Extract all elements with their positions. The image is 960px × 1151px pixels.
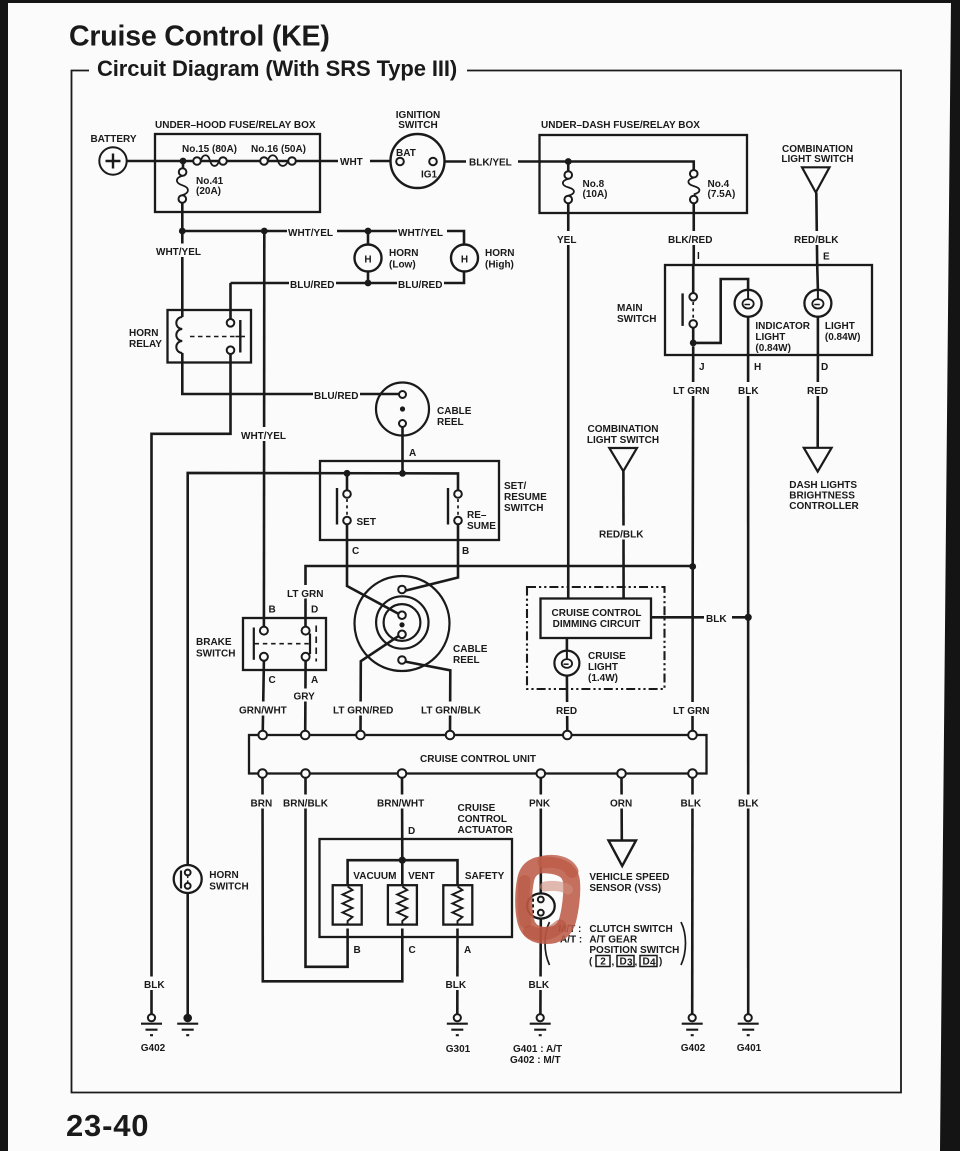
net label RED/BLK (middle) (598, 526, 646, 540)
wire cable reel A to set/resume (401, 427, 404, 474)
svg-text:BLK: BLK (706, 614, 727, 625)
pin IG1 (429, 158, 437, 166)
wire RED/BLK to dimming circuit (622, 471, 625, 598)
net label YEL (554, 231, 583, 245)
svg-text:ACTUATOR: ACTUATOR (458, 825, 514, 836)
svg-text:CABLE: CABLE (453, 644, 488, 655)
wire E feed to light bulb (816, 265, 819, 290)
wire brake A to CCU (GRY) (304, 661, 307, 735)
svg-text:BRN/BLK: BRN/BLK (283, 799, 329, 810)
horn (Low) (355, 245, 382, 272)
net label BRN/BLK (282, 795, 329, 809)
wire B from RESUME to cable reel (406, 524, 458, 590)
cruise control dimming circuit box (541, 599, 652, 639)
svg-text:YEL: YEL (557, 235, 576, 246)
horn relay contact terminals (227, 319, 235, 327)
ground G402 (left) (148, 1014, 155, 1021)
horn switch (174, 865, 202, 893)
svg-text:CONTROLLER: CONTROLLER (789, 501, 859, 512)
fuse No.41 (20A) (179, 168, 187, 176)
node: junction battery/fuse15/fuse41 (180, 158, 187, 165)
wire main switch to indicator light (693, 279, 748, 343)
svg-text:SWITCH: SWITCH (617, 314, 656, 325)
svg-text:G401 : A/T: G401 : A/T (513, 1044, 562, 1055)
svg-text:No.15 (80A): No.15 (80A) (182, 144, 237, 155)
clutch switch annotation parens (545, 922, 550, 965)
svg-text:WHT/YEL: WHT/YEL (288, 228, 333, 239)
svg-text:A: A (409, 448, 416, 459)
light bulb (804, 290, 831, 317)
fuse No.4 (7.5A) (690, 170, 698, 178)
node: junction A / common (399, 470, 406, 477)
wire C from SET to cable reel (347, 524, 399, 614)
svg-text:IG1: IG1 (421, 170, 438, 181)
wire relay coil to BLU/RED cable reel line (182, 363, 398, 395)
svg-text:RED: RED (807, 386, 828, 397)
svg-text:D: D (620, 957, 627, 968)
svg-text:UNDER–DASH FUSE/RELAY BOX: UNDER–DASH FUSE/RELAY BOX (541, 120, 700, 131)
node: junction BLK at H column (745, 614, 752, 621)
net label LT GRN (brake D line) (286, 585, 326, 599)
net label LT GRN (J column) (672, 382, 714, 396)
svg-text:SET/: SET/ (504, 481, 526, 492)
svg-text:CRUISE: CRUISE (588, 651, 626, 662)
wire safety to ground G301 (456, 929, 459, 1015)
under-dash fuse/relay box (540, 135, 748, 213)
net label BLK (left ground) (141, 977, 167, 991)
svg-text:4: 4 (650, 958, 656, 969)
svg-text:BLK: BLK (738, 799, 759, 810)
vehicle speed sensor triangle (609, 841, 637, 867)
svg-text:(0.84W): (0.84W) (825, 332, 861, 343)
brake switch box (243, 618, 326, 670)
cruise control actuator box (320, 839, 513, 937)
main switch box (665, 265, 872, 355)
SET switch (346, 473, 349, 490)
scan border right bar (940, 0, 960, 1151)
svg-text:D: D (821, 362, 828, 373)
svg-text:(10A): (10A) (583, 189, 608, 200)
page frame (72, 71, 902, 1093)
svg-text:J: J (699, 362, 705, 373)
svg-text:RELAY: RELAY (129, 339, 162, 350)
scan border left bar (0, 0, 8, 1151)
svg-text:BLK: BLK (738, 386, 759, 397)
brake switch contacts (260, 627, 268, 635)
svg-text:SWITCH: SWITCH (398, 120, 437, 131)
svg-text:LT GRN: LT GRN (287, 589, 323, 600)
wire fuse41 drop (181, 164, 184, 228)
svg-text:Circuit Diagram (With SRS Type: Circuit Diagram (With SRS Type III) (97, 56, 457, 81)
svg-text:MAIN: MAIN (617, 303, 643, 314)
svg-text:CABLE: CABLE (437, 406, 472, 417)
wire BLK/RED column (fuse4 to main switch I) (692, 203, 695, 265)
cruise light bulb (554, 651, 579, 676)
svg-text:VEHICLE SPEED: VEHICLE SPEED (589, 872, 669, 883)
ground G401 (right) (745, 1014, 752, 1021)
svg-text:3: 3 (627, 958, 633, 969)
svg-text:LT GRN/BLK: LT GRN/BLK (421, 706, 482, 717)
net label BLU/RED (first) (289, 276, 336, 290)
safety solenoid (443, 885, 472, 924)
vacuum solenoid (333, 885, 362, 924)
svg-text:(High): (High) (485, 260, 514, 271)
svg-text:LIGHT: LIGHT (755, 332, 785, 343)
net label LT GRN/BLK (419, 702, 483, 716)
brake switch dashed link (255, 643, 310, 645)
net label BLK (safety) (444, 977, 470, 991)
svg-text:BATTERY: BATTERY (90, 134, 136, 145)
net label WHT/YEL (second) (397, 224, 447, 238)
pin BAT (396, 158, 404, 166)
net label BLU/RED (second) (397, 276, 444, 290)
wire dimming to cruise light (566, 638, 569, 651)
net label WHT/YEL (first) (287, 224, 337, 238)
wire BLK dimming to H column (651, 616, 748, 619)
wire BRN/BLK to vacuum solenoid (306, 778, 348, 967)
svg-text:LIGHT SWITCH: LIGHT SWITCH (587, 435, 659, 446)
svg-text:A/T GEAR: A/T GEAR (589, 935, 638, 946)
battery B+ (99, 147, 126, 174)
wire brake C to CCU (GRN/WHT) (263, 661, 264, 735)
svg-text:POSITION SWITCH: POSITION SWITCH (589, 945, 679, 956)
svg-text:(Low): (Low) (389, 260, 416, 271)
svg-text:SWITCH: SWITCH (196, 649, 235, 660)
svg-text:23-40: 23-40 (66, 1108, 149, 1143)
svg-text:LT GRN/RED: LT GRN/RED (333, 706, 393, 717)
node: junction fuse No.8 tap (565, 158, 572, 165)
ground (horn switch, filled) (183, 1014, 192, 1023)
net label BLU/RED (cable reel line) (313, 387, 360, 401)
svg-text:,: , (612, 957, 615, 968)
svg-text:(7.5A): (7.5A) (708, 189, 736, 200)
horn relay coil (181, 310, 184, 363)
net label LT GRN (above CCU right) (671, 702, 713, 716)
node: junction D bus (399, 857, 406, 864)
wire clutch switch to ground (539, 919, 542, 1015)
wire horn low to BLU/RED (367, 272, 370, 284)
wire actuator internal bus (348, 860, 458, 885)
wire BLU/RED horn line (231, 271, 465, 283)
svg-text:WHT/YEL: WHT/YEL (241, 431, 286, 442)
svg-text:CRUISE: CRUISE (458, 803, 496, 814)
cable reel (lower) rings (355, 576, 450, 671)
svg-text:G402: G402 (141, 1043, 166, 1054)
wire battery feed y=161 (127, 160, 391, 163)
svg-text:H: H (754, 362, 761, 373)
svg-text:D: D (408, 826, 415, 837)
net label BLK (H column lower) (736, 795, 762, 809)
svg-text:BLU/RED: BLU/RED (398, 280, 442, 291)
svg-text:BLU/RED: BLU/RED (314, 391, 358, 402)
svg-text:BRN/WHT: BRN/WHT (377, 799, 424, 810)
net label GRN/WHT (238, 702, 288, 716)
svg-text:DIMMING CIRCUIT: DIMMING CIRCUIT (553, 619, 641, 630)
svg-text:CLUTCH SWITCH: CLUTCH SWITCH (589, 924, 672, 935)
net label PNK (527, 795, 557, 809)
main switch contact (692, 265, 695, 293)
net label BRN/WHT (376, 795, 426, 809)
svg-text:SWITCH: SWITCH (504, 503, 543, 514)
RESUME switch (447, 488, 449, 525)
svg-text:I: I (697, 251, 700, 262)
svg-text:RED: RED (556, 706, 577, 717)
svg-text:CRUISE CONTROL UNIT: CRUISE CONTROL UNIT (420, 754, 536, 765)
svg-text:G402 : M/T: G402 : M/T (510, 1055, 561, 1066)
cable reel terminals (398, 586, 406, 594)
svg-text:LIGHT: LIGHT (588, 662, 618, 673)
wire horn switch to ground (186, 893, 189, 1015)
net label WHT/YEL (vertical inline) (155, 244, 205, 258)
svg-text:D: D (643, 957, 650, 968)
svg-text:B: B (354, 945, 361, 956)
net label BRN (249, 795, 277, 809)
svg-text:BRAKE: BRAKE (196, 637, 232, 648)
wire LT GRN brake-D to J column (306, 566, 693, 627)
clutch switch / A-T gear position switch (527, 893, 555, 918)
svg-text:Cruise Control (KE): Cruise Control (KE) (69, 21, 330, 53)
svg-text:DASH LIGHTS: DASH LIGHTS (789, 480, 857, 491)
svg-text:SET: SET (357, 517, 376, 528)
net label BLK (G402 column) (679, 795, 706, 809)
wire IG1 to under-dash box (445, 160, 542, 163)
svg-text:C: C (352, 546, 359, 557)
vent solenoid (388, 885, 417, 924)
wire BRN/WHT (D) to actuator (401, 778, 404, 860)
ground G301 (454, 1014, 461, 1021)
ignition switch U: circle (391, 134, 445, 188)
svg-text:GRY: GRY (294, 692, 316, 703)
svg-text:WHT: WHT (340, 157, 363, 168)
net label LT GRN/RED (331, 702, 394, 716)
node: junction horn low bottom (365, 280, 372, 287)
node: junction LT GRN at J column (689, 563, 696, 570)
svg-text:BLU/RED: BLU/RED (290, 280, 334, 291)
wire BRN to vent solenoid (263, 778, 403, 982)
svg-text:LT GRN: LT GRN (673, 706, 709, 717)
cruise control unit box (249, 735, 707, 774)
svg-text:INDICATOR: INDICATOR (755, 321, 810, 332)
horn relay actuation dashed link (190, 336, 236, 338)
wire cruise light to CCU (RED) (566, 676, 569, 735)
svg-text:REEL: REEL (453, 655, 480, 666)
svg-text:B: B (462, 546, 469, 557)
wire ORN to VSS (620, 778, 623, 841)
horn relay contact bar (239, 320, 241, 353)
wire YEL column (fuse8 to dimming circuit) (567, 203, 570, 598)
node: junction WHT/YEL brake-switch column (261, 228, 268, 235)
svg-text:LIGHT SWITCH: LIGHT SWITCH (781, 154, 853, 165)
svg-text:): ) (659, 957, 662, 968)
svg-text:C: C (409, 945, 416, 956)
svg-text:CONTROL: CONTROL (458, 814, 507, 825)
wire to fuse No.8 (567, 164, 570, 171)
svg-text:PNK: PNK (529, 799, 551, 810)
svg-text:LT GRN: LT GRN (673, 386, 709, 397)
svg-text:BLK/RED: BLK/RED (668, 235, 712, 246)
svg-text:BRIGHTNESS: BRIGHTNESS (789, 491, 855, 502)
svg-text:G401: G401 (737, 1043, 762, 1054)
svg-text:RESUME: RESUME (504, 492, 547, 503)
svg-text:H: H (461, 255, 468, 266)
svg-text:REEL: REEL (437, 417, 464, 428)
fuse No.16 (50A) (260, 157, 268, 165)
svg-text:A: A (311, 675, 318, 686)
svg-text:COMBINATION: COMBINATION (588, 424, 659, 435)
net label GRY (292, 689, 320, 702)
svg-text:GRN/WHT: GRN/WHT (239, 706, 287, 717)
wire WHT/YEL horizontal to horns (182, 231, 464, 245)
wire D column (RED) (816, 317, 819, 448)
svg-text:(1.4W): (1.4W) (588, 673, 618, 684)
wire BLK LT GRN column to ground G402 (691, 778, 694, 1014)
wire J column (LT GRN) (691, 346, 694, 735)
net label ORN (608, 795, 638, 809)
node: junction WHT/YEL at fuse41 bottom (179, 228, 186, 235)
svg-text:BLK: BLK (681, 799, 702, 810)
under-hood fuse/relay box (155, 134, 320, 212)
svg-text:2: 2 (600, 957, 606, 968)
ground G401/G402 (clutch) (537, 1014, 544, 1021)
svg-text:SUME: SUME (467, 521, 496, 532)
wire RED/BLK comb switch to E (815, 193, 819, 266)
svg-text:No.16 (50A): No.16 (50A) (251, 144, 306, 155)
horn relay box (168, 310, 252, 363)
svg-text:VACUUM: VACUUM (353, 871, 396, 882)
wire cable reel to LT GRN/RED (361, 636, 399, 735)
svg-text:HORN: HORN (389, 248, 418, 259)
node: junction horn low top (365, 228, 372, 235)
svg-text:G301: G301 (446, 1044, 471, 1055)
wire WHT/YEL drop to relay coil (181, 231, 184, 310)
svg-text:BLK: BLK (529, 980, 550, 991)
net label BLK (clutch) (527, 977, 553, 991)
svg-text:RED/BLK: RED/BLK (794, 235, 839, 246)
net label BLK (dimming) (704, 610, 732, 624)
svg-text:(20A): (20A) (196, 186, 221, 197)
net label WHT (338, 154, 370, 167)
wire WHT/YEL common (horn switch / set-resume) (188, 473, 458, 865)
svg-text:HORN: HORN (209, 870, 238, 881)
svg-text:BLK: BLK (446, 980, 467, 991)
wire relay contact to ground column (152, 354, 231, 1014)
svg-text:RED/BLK: RED/BLK (599, 530, 644, 541)
wire H column (BLK) (747, 317, 750, 1014)
net label BLK/RED (666, 231, 720, 245)
fuse No.8 (10A) (564, 171, 572, 179)
svg-text:SENSOR (VSS): SENSOR (VSS) (589, 883, 661, 894)
net label BLK/YEL (466, 154, 518, 168)
scan border top bar (0, 0, 960, 3)
svg-text:UNDER–HOOD FUSE/RELAY BOX: UNDER–HOOD FUSE/RELAY BOX (155, 120, 316, 131)
svg-text:BLK: BLK (144, 980, 165, 991)
svg-text:VENT: VENT (408, 871, 435, 882)
dash lights brightness controller triangle (804, 448, 832, 472)
svg-text:G402: G402 (681, 1043, 706, 1054)
svg-text:A: A (464, 945, 471, 956)
indicator light bulb (735, 290, 762, 317)
svg-text:WHT/YEL: WHT/YEL (156, 247, 201, 258)
wire PNK to clutch switch (539, 778, 542, 894)
svg-text:HORN: HORN (129, 328, 158, 339)
cable reel (upper, horn circuit) (376, 383, 429, 436)
red marker annotation around clutch switch (524, 865, 572, 936)
ground G402 (right) (689, 1014, 696, 1021)
svg-text:,: , (635, 957, 638, 968)
CCU bottom terminals (258, 769, 267, 778)
svg-text:(0.84W): (0.84W) (755, 343, 791, 354)
node: junction SET common (344, 470, 351, 477)
fuse No.15 (80A) (193, 157, 201, 165)
svg-text:CRUISE CONTROL: CRUISE CONTROL (552, 608, 642, 619)
cruise control dimming circuit enclosure (dash-dot) (527, 587, 665, 689)
wire horn low feed (367, 231, 370, 245)
net label RED (D column) (805, 382, 835, 396)
svg-text:H: H (364, 255, 371, 266)
svg-text:C: C (269, 675, 276, 686)
wire relay contact up-feed (229, 283, 232, 319)
wire inside under-dash box (540, 162, 694, 171)
net label WHT/YEL (column inline) (240, 427, 290, 441)
svg-text:SWITCH: SWITCH (209, 882, 248, 893)
svg-text:LIGHT: LIGHT (825, 321, 855, 332)
svg-text:BAT: BAT (396, 148, 416, 159)
svg-text:WHT/YEL: WHT/YEL (398, 228, 443, 239)
net label RED/BLK (top right) (793, 231, 841, 245)
svg-text:BLK/YEL: BLK/YEL (469, 158, 512, 169)
svg-text:B: B (269, 605, 276, 616)
svg-text:SAFETY: SAFETY (465, 871, 505, 882)
svg-text:ORN: ORN (610, 799, 632, 810)
svg-text:E: E (823, 252, 830, 263)
svg-text:HORN: HORN (485, 248, 514, 259)
svg-text:BRN: BRN (251, 799, 273, 810)
net label BLK (H column) (736, 382, 762, 396)
horn (High) (451, 245, 478, 272)
svg-text:D: D (311, 605, 318, 616)
svg-text:RE–: RE– (467, 510, 487, 521)
net label RED (cruise light) (554, 702, 584, 716)
wire WHT/YEL column down to brake switch B (263, 231, 266, 627)
CCU top terminals (258, 731, 267, 740)
wire cable reel to LT GRN/BLK (405, 662, 450, 735)
node: junction J/main switch (690, 340, 697, 347)
set/resume switch box (320, 461, 499, 540)
